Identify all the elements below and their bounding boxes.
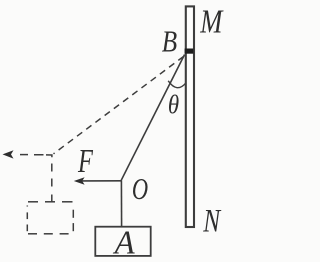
svg-text:θ: θ — [168, 91, 179, 120]
svg-text:M: M — [199, 2, 224, 40]
svg-text:N: N — [202, 203, 221, 239]
svg-text:A: A — [113, 224, 136, 262]
svg-text:F: F — [77, 143, 94, 180]
svg-text:O: O — [132, 172, 148, 206]
svg-text:B: B — [162, 25, 177, 59]
